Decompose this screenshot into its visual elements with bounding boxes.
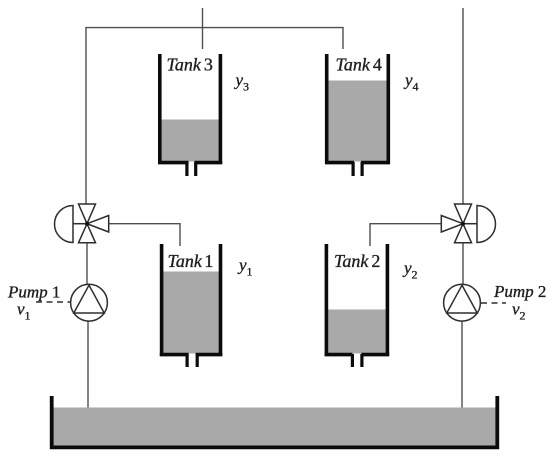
svg-text:Tank 4: Tank 4 [336,55,382,75]
tank T2 water fill [328,310,386,354]
tank T4 outlet nozzle [353,162,362,176]
valve V2 (right three-way valve) [441,204,495,243]
wire: dashed link pump symbol to Pump 2 label [481,302,506,304]
svg-text:y2: y2 [402,259,418,282]
wire: pipe inlet to Tank 3 from top [202,8,204,49]
wire: dashed link Pump 1 label to pump symbol [36,301,70,303]
label y4 [403,71,419,94]
svg-text:Tank 2: Tank 2 [334,251,380,271]
svg-text:v1: v1 [17,300,31,323]
wire: left valve output to Tank 1 [109,224,180,246]
svg-text:v2: v2 [512,300,526,323]
pump P1 (circle with triangle) [71,284,108,321]
pump P2 (circle with triangle) [444,284,481,321]
svg-text:Pump 2: Pump 2 [493,282,546,301]
label "Pump 2" [493,282,546,301]
svg-text:Pump 1: Pump 1 [7,283,60,302]
wire: right valve down to Pump 2 [462,243,464,286]
svg-text:y4: y4 [403,71,419,94]
tank T3 outlet nozzle [187,162,196,176]
reservoir basin water fill [53,408,496,447]
tank T1 walls [160,244,223,356]
tank T2 outlet nozzle [352,354,362,367]
tank T1 outlet nozzle [187,354,197,367]
wire: left riser pipe from corner down to left valve [85,27,87,204]
tank T2 walls [325,244,390,356]
label v2 [512,300,526,323]
label y3 [234,71,250,94]
label "Pump 1" [7,283,60,302]
wire: top horizontal pipe from left riser to Tank 4 inlet [86,27,343,29]
tank T1 water fill [163,272,219,354]
tank T3 water fill [161,120,219,162]
label "Tank 1" [168,251,214,271]
tank T4 walls [325,54,390,164]
svg-text:Tank 3: Tank 3 [167,55,213,75]
wire: right riser pipe from valve up to top edge [462,8,464,204]
svg-text:y1: y1 [237,256,253,279]
label "Tank 4" [336,55,382,75]
label "Tank 3" [167,55,213,75]
valve V1 (left three-way valve) [55,204,109,243]
wire: Pump 1 down to reservoir [87,321,89,408]
reservoir basin walls [52,396,498,447]
wire: Tank 4 inlet drop [342,27,344,49]
svg-text:Tank 1: Tank 1 [168,251,214,271]
label y2 [402,259,418,282]
wire: left valve down to Pump 1 [86,243,88,286]
label "Tank 2" [334,251,380,271]
tank T3 walls [158,54,222,164]
wire: right valve output to Tank 2 [370,224,442,246]
label y1 [237,256,253,279]
label v1 [17,300,31,323]
tank T4 water fill [328,81,387,162]
svg-text:y3: y3 [234,71,250,94]
wire: Pump 2 down to reservoir [461,321,463,408]
